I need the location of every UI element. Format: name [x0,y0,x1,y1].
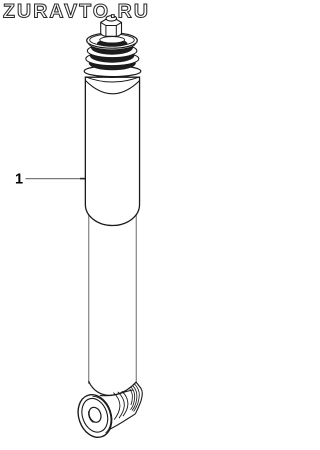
flange skirt arcs [84,72,140,78]
nut hex facets [101,22,122,36]
bellows ring 3 shadow [89,56,136,70]
sleeve beak silhouette [135,382,142,414]
wire: lower tube left edge [88,213,90,384]
eye outer face [73,390,118,442]
barrel bottom edge [107,414,135,431]
eye outer rim double line [92,393,115,433]
bellows ring 1 shadow [91,41,133,55]
bellows ring 3 [86,52,139,66]
flange ellipse [84,66,141,77]
rod stud tip [106,16,117,21]
bellows ring 2 [87,44,137,58]
lower eye barrel fill [100,382,143,431]
bushing ridge arcs on barrel [113,391,128,420]
top washer [87,33,138,48]
top washer cup recess [100,37,125,43]
eye rubber ring [78,395,113,436]
main body (reserve tube) [85,77,139,225]
sleeve beak inner facets [130,384,140,412]
bellows ring 1 [89,36,136,50]
eye hole [87,406,103,424]
lower tube bottom curve [89,381,137,395]
eye hole chamfer [87,411,93,423]
wire: lower tube right edge [135,213,137,384]
bellows ring 2 shadow [90,49,135,63]
top washer inner rim [90,34,135,46]
svg-text:ZURAVTO.RU: ZURAVTO.RU [3,1,150,23]
svg-text:1: 1 [15,172,23,188]
body top deep arc (rolled seam) [85,81,139,94]
nut body [101,19,122,36]
top washer cup shadow [97,40,127,47]
barrel top edge [100,390,134,396]
label 1 leader line [26,178,88,180]
